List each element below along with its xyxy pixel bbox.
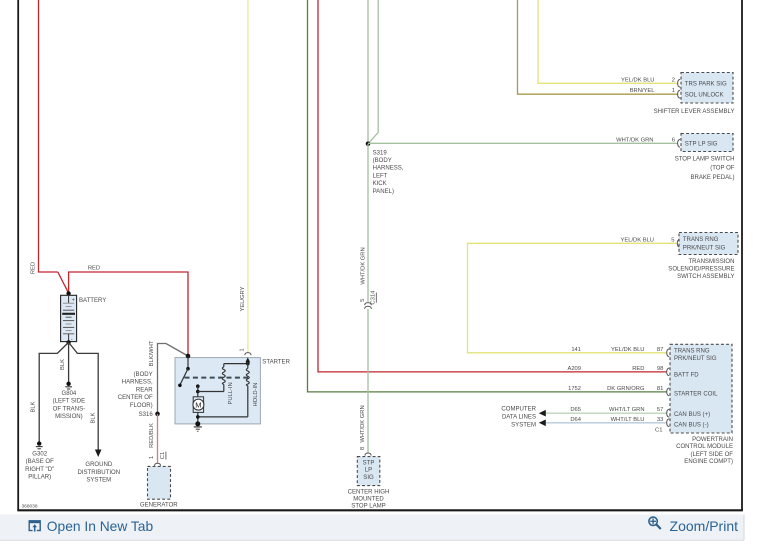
wire hold-in coil to motor ground [198, 416, 248, 418]
svg-text:BRAKE PEDAL): BRAKE PEDAL) [690, 175, 734, 181]
svg-text:1: 1 [149, 456, 155, 459]
svg-text:G804: G804 [62, 391, 77, 397]
node starter battery terminal [186, 354, 191, 359]
wire RED diagonal into battery positive [58, 272, 69, 293]
connector shifter lever assembly [654, 73, 735, 115]
wire WHT/LT GRN CAN bus + [539, 407, 670, 417]
wire WHT/DK GRN from top (branch A) [367, 0, 369, 144]
svg-text:SYSTEM: SYSTEM [511, 422, 536, 428]
svg-text:S316: S316 [139, 412, 154, 418]
svg-text:STARTER COIL: STARTER COIL [674, 391, 718, 397]
arrow to computer data lines [539, 420, 546, 427]
connector stop lamp switch [675, 134, 735, 182]
connector cap trans pin 5 [677, 239, 680, 247]
svg-text:RED: RED [31, 262, 37, 274]
svg-text:DK GRN/ORG: DK GRN/ORG [607, 386, 645, 392]
svg-text:BATTERY: BATTERY [79, 298, 106, 304]
svg-text:WHT/LT GRN: WHT/LT GRN [609, 407, 645, 413]
svg-text:(LEFT SIDE OF: (LEFT SIDE OF [690, 452, 733, 458]
svg-text:D65: D65 [570, 407, 581, 413]
svg-text:CENTER OF: CENTER OF [118, 395, 153, 401]
svg-text:WHT/LT BLU: WHT/LT BLU [611, 417, 645, 423]
svg-text:+: + [72, 297, 75, 303]
svg-text:DISTRIBUTION: DISTRIBUTION [77, 470, 120, 476]
wire YEL/DK BLU trans range to PCM [468, 237, 680, 356]
label Zoom/Print [670, 518, 739, 534]
connector powertrain control module [670, 344, 733, 465]
svg-text:5: 5 [360, 298, 366, 302]
pull-in coil [222, 364, 233, 405]
svg-text:BATT FD: BATT FD [674, 372, 699, 378]
svg-text:WHT/DK GRN: WHT/DK GRN [616, 137, 653, 143]
svg-text:RED: RED [632, 366, 644, 372]
svg-text:TRS PARK SIG: TRS PARK SIG [685, 82, 727, 88]
connector cap pin 6 [678, 139, 681, 147]
border frame bottom [17, 504, 743, 511]
svg-text:C314: C314 [370, 290, 376, 305]
icon open in new tab [29, 521, 40, 532]
svg-text:CONTROL MODULE: CONTROL MODULE [676, 444, 733, 450]
node starter motor feed contact [196, 384, 200, 396]
svg-text:33: 33 [657, 417, 664, 423]
connector cap pin 8 [365, 453, 371, 456]
connector cap pin 87 [667, 349, 670, 357]
svg-text:CENTER HIGH: CENTER HIGH [348, 490, 390, 496]
svg-text:1752: 1752 [568, 386, 581, 392]
svg-text:YEL/DK BLU: YEL/DK BLU [620, 237, 654, 243]
svg-text:SOLENOID/PRESSURE: SOLENOID/PRESSURE [668, 266, 734, 272]
wire BLK/WHT starter to S316 [149, 340, 188, 413]
svg-text:81: 81 [657, 386, 664, 392]
wire WHT/LT BLU CAN bus - [539, 417, 670, 434]
svg-text:C1: C1 [655, 428, 663, 434]
svg-text:BLK: BLK [31, 401, 37, 412]
border frame left [17, 0, 19, 510]
svg-text:PILLAR): PILLAR) [28, 475, 51, 481]
svg-text:MISSION): MISSION) [55, 414, 83, 420]
svg-text:C1: C1 [160, 452, 166, 460]
starter assembly box [175, 358, 291, 424]
wire BRN/YEL to shifter sol unlock [518, 0, 681, 98]
svg-text:8: 8 [360, 446, 366, 450]
connector cap generator pin 1 [154, 463, 160, 466]
svg-text:OF TRANS-: OF TRANS- [53, 406, 85, 412]
svg-text:HARNESS,: HARNESS, [373, 166, 404, 172]
svg-text:LEFT: LEFT [373, 173, 388, 179]
node starter ground [195, 421, 200, 426]
starter solenoid switch [178, 356, 190, 387]
svg-text:COMPUTER: COMPUTER [501, 406, 536, 412]
svg-text:-: - [71, 337, 73, 343]
svg-text:(BODY: (BODY [373, 158, 392, 164]
svg-text:YEL/DK BLU: YEL/DK BLU [611, 347, 645, 353]
dashed linkage solenoid [185, 377, 249, 379]
svg-text:SOL UNLOCK: SOL UNLOCK [685, 93, 724, 99]
svg-text:BLK: BLK [90, 412, 96, 423]
svg-text:141: 141 [571, 347, 581, 353]
svg-text:98: 98 [657, 366, 664, 372]
node splice S316 [118, 372, 160, 418]
wire RED to PCM batt fd [318, 0, 669, 376]
wire YEL/DK BLU to shifter trs park sig [538, 0, 680, 87]
svg-text:S319: S319 [373, 150, 388, 156]
svg-text:RED: RED [88, 266, 100, 272]
svg-text:(LEFT SIDE: (LEFT SIDE [53, 399, 85, 405]
wire BLK battery negative to ground distribution [69, 342, 121, 483]
svg-text:1: 1 [672, 88, 675, 94]
svg-text:ENGINE COMPT): ENGINE COMPT) [684, 459, 733, 465]
wire BLK battery negative to G302 [31, 342, 69, 442]
wire WHT/DK GRN splice to stop lamp switch [368, 137, 680, 147]
arrow to computer data lines [539, 410, 546, 417]
svg-text:PULL-IN: PULL-IN [228, 382, 234, 404]
connector cap shifter pin 1 [678, 90, 681, 98]
starter motor M [193, 397, 204, 413]
svg-text:Open In New Tab: Open In New Tab [47, 519, 154, 534]
svg-text:87: 87 [657, 347, 664, 353]
wire pull-in coil to motor node [198, 391, 224, 393]
svg-text:PRK/NEUT SIG: PRK/NEUT SIG [674, 356, 717, 362]
wire RED battery feed from fuse (left vertical) [31, 0, 69, 293]
svg-text:CAN BUS (+): CAN BUS (+) [674, 412, 710, 418]
svg-text:HARNESS,: HARNESS, [122, 380, 153, 386]
wire DK GRN/ORG to PCM starter coil [308, 0, 670, 396]
label computer data lines system [501, 406, 536, 428]
svg-text:HOLD-IN: HOLD-IN [253, 383, 259, 407]
icon zoom magnifier [649, 517, 661, 529]
connector cap pin 98 [667, 368, 670, 376]
node coil top junction [246, 362, 250, 366]
ground G804 [53, 382, 85, 421]
svg-text:TRANS RNG: TRANS RNG [683, 237, 719, 243]
node battery positive terminal [66, 291, 70, 295]
wire BLK battery negative to G804 (center) [60, 342, 69, 383]
node battery negative terminal [66, 340, 70, 344]
svg-text:STOP LAMP: STOP LAMP [351, 503, 385, 509]
svg-text:G302: G302 [32, 451, 47, 457]
wire WHT/DK GRN splice down to C314 [360, 144, 368, 302]
connector center high mounted stop lamp [348, 457, 390, 510]
svg-text:1: 1 [240, 348, 246, 351]
svg-text:SIG: SIG [363, 475, 374, 481]
svg-text:POWERTRAIN: POWERTRAIN [692, 437, 733, 443]
hold-in coil [246, 364, 258, 417]
svg-text:BLK/WHT: BLK/WHT [149, 340, 155, 366]
ground symbol starter [194, 427, 202, 431]
svg-text:MOUNTED: MOUNTED [353, 497, 384, 503]
wire RED/BLK S316 to generator [149, 414, 166, 466]
svg-text:5: 5 [671, 237, 675, 243]
footer toolbar [0, 515, 744, 541]
svg-text:WHT/DK GRN: WHT/DK GRN [360, 247, 366, 284]
svg-text:SWITCH ASSEMBLY: SWITCH ASSEMBLY [677, 274, 734, 280]
arrow starter pin 1 into coils [245, 357, 250, 363]
svg-text:368038: 368038 [22, 504, 38, 510]
svg-text:GROUND: GROUND [85, 462, 113, 468]
svg-text:YEL/DK BLU: YEL/DK BLU [621, 77, 655, 83]
node splice S319 [366, 142, 404, 195]
connector cap at starter pin 1 [245, 353, 251, 356]
svg-text:PRK/NEUT SIG: PRK/NEUT SIG [683, 246, 726, 252]
border frame right [741, 0, 743, 510]
connector cap pin 57 [667, 409, 670, 417]
svg-text:(BODY: (BODY [134, 372, 153, 378]
wire RED battery to starter [69, 266, 188, 356]
arrow to ground distribution system [95, 450, 102, 458]
svg-text:CAN BUS (-): CAN BUS (-) [674, 422, 709, 428]
svg-text:FLOOR): FLOOR) [130, 403, 153, 409]
wire motor to ground [196, 412, 200, 424]
svg-text:TRANS RNG: TRANS RNG [674, 348, 710, 354]
svg-text:Zoom/Print: Zoom/Print [670, 518, 739, 534]
wire WHT/DK GRN C314 to center high mounted stop lamp [360, 309, 371, 456]
svg-text:M: M [195, 400, 201, 409]
svg-text:6: 6 [672, 137, 676, 143]
svg-text:KICK: KICK [373, 181, 387, 187]
svg-text:STOP LAMP SWITCH: STOP LAMP SWITCH [675, 157, 735, 163]
wire coil top link [224, 363, 248, 365]
label Open In New Tab [47, 519, 154, 534]
connector transmission solenoid/pressure switch assembly [668, 233, 738, 280]
connector cap pin 33 [667, 419, 670, 427]
svg-text:STARTER: STARTER [262, 360, 290, 366]
connector cap pin 81 [667, 388, 670, 396]
svg-text:SYSTEM: SYSTEM [86, 478, 111, 484]
svg-text:RIGHT "D": RIGHT "D" [25, 467, 54, 473]
wire YEL/GRY ignition to starter pin 1 [240, 0, 252, 355]
svg-text:STP: STP [363, 461, 375, 467]
svg-text:BLK: BLK [60, 359, 66, 370]
svg-text:YEL/GRY: YEL/GRY [240, 286, 246, 311]
svg-text:LP: LP [365, 468, 372, 474]
ground G302 [25, 441, 54, 480]
generator [140, 466, 178, 508]
svg-text:DATA LINES: DATA LINES [502, 414, 536, 420]
wire WHT/DK GRN from top (branch B) [368, 0, 378, 144]
svg-text:57: 57 [657, 407, 664, 413]
connector C314 inline [360, 290, 376, 309]
svg-text:D64: D64 [570, 417, 581, 423]
svg-text:A209: A209 [567, 366, 581, 372]
connector cap shifter pin 2 [678, 79, 681, 87]
svg-text:BRN/YEL: BRN/YEL [630, 88, 656, 94]
svg-text:(TOP OF: (TOP OF [710, 166, 735, 172]
svg-text:PANEL): PANEL) [373, 189, 394, 195]
battery [61, 295, 107, 342]
svg-text:REAR: REAR [136, 387, 153, 393]
svg-text:WHT/DK GRN: WHT/DK GRN [360, 405, 366, 442]
svg-text:SHIFTER LEVER ASSEMBLY: SHIFTER LEVER ASSEMBLY [654, 109, 735, 115]
svg-text:GENERATOR: GENERATOR [140, 502, 178, 508]
svg-text:TRANSMISSION: TRANSMISSION [688, 259, 734, 265]
svg-text:2: 2 [672, 77, 675, 83]
svg-text:STP LP SIG: STP LP SIG [685, 142, 718, 148]
svg-text:(BASE OF: (BASE OF [26, 459, 55, 465]
svg-text:RED/BLK: RED/BLK [149, 423, 155, 448]
